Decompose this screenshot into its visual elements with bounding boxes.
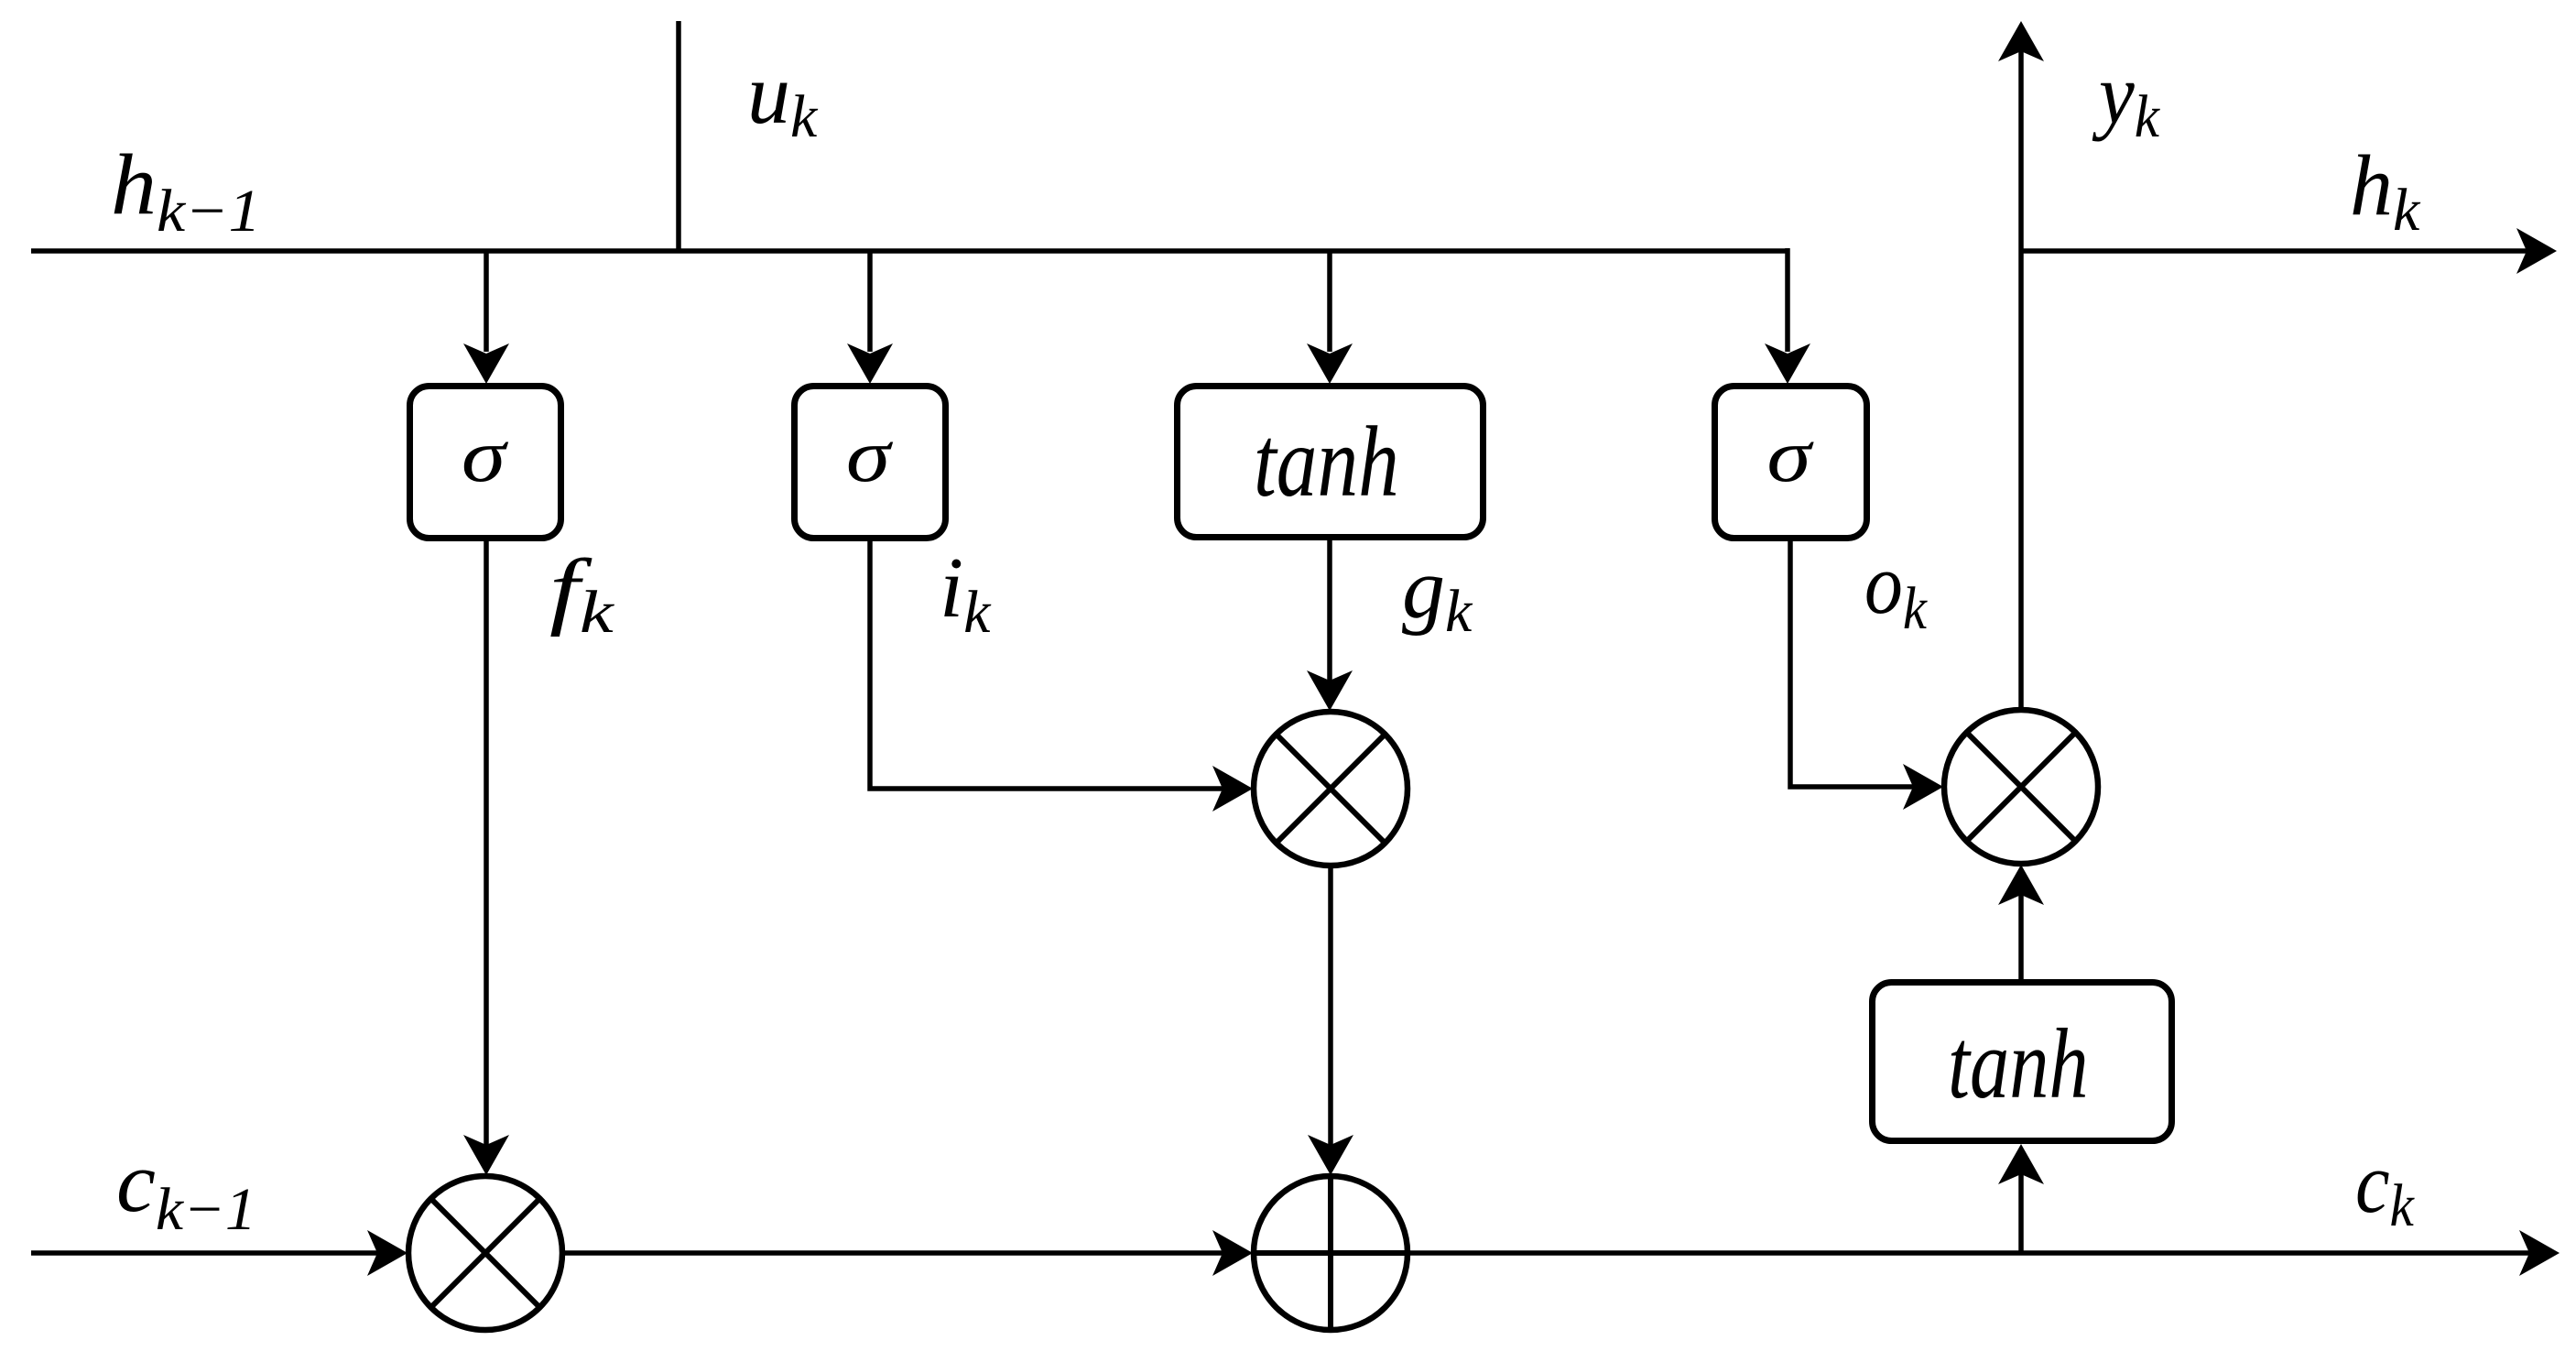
svg-text:ok: ok <box>1864 538 1928 642</box>
svg-text:yk: yk <box>2092 46 2160 149</box>
label h_k <box>2350 138 2421 244</box>
svg-text:gk: gk <box>1402 541 1473 645</box>
box tanh2 (cell output squash) <box>1873 983 2172 1141</box>
box sigma2 (input gate) <box>795 387 946 539</box>
wire mult2 to adder <box>1308 866 1353 1175</box>
svg-text:σ: σ <box>846 414 894 497</box>
wire c-line left (c_{k-1} input) <box>31 1230 408 1276</box>
label i_k <box>940 540 992 646</box>
label c_k <box>2355 1136 2415 1239</box>
label u_k <box>747 47 819 150</box>
wire corner drop arrow to sigma3 <box>1765 248 1810 384</box>
svg-text:uk: uk <box>747 47 819 150</box>
wire c to tanh2 <box>1998 1144 2044 1253</box>
svg-text:ik: ik <box>940 540 992 646</box>
svg-text:hk−1: hk−1 <box>111 137 261 245</box>
label o_k <box>1864 538 1928 642</box>
wire c-line right (c_k output) <box>1408 1230 2560 1276</box>
svg-text:ck−1: ck−1 <box>116 1134 256 1243</box>
svg-text:σ: σ <box>462 414 509 497</box>
wire i_k from sigma2 to mult2 <box>870 541 1253 812</box>
label h_{k-1} <box>111 137 261 245</box>
box tanh1 (candidate) <box>1178 387 1484 538</box>
wire h_k output <box>2021 228 2557 274</box>
multiplier mult1 (f_k x c_{k-1}) <box>408 1176 562 1330</box>
box sigma1 (forget gate) <box>410 387 561 539</box>
adder (f*c + i*g) <box>1254 1176 1408 1330</box>
wire g_k from tanh1 to mult2 <box>1307 539 1353 711</box>
label g_k <box>1402 541 1473 645</box>
wire mult3 up to y_k output <box>1998 21 2044 710</box>
svg-text:tanh: tanh <box>1948 1010 2089 1120</box>
label sigma1 <box>462 414 509 497</box>
svg-text:ck: ck <box>2355 1136 2415 1239</box>
wire f_k from sigma1 to mult1 <box>463 541 509 1175</box>
label y_k <box>2092 46 2160 149</box>
wire tanh2 to mult3 <box>1998 865 2044 982</box>
multiplier mult3 (o_k x tanh(c_k)) <box>1944 710 2098 864</box>
wire h-line (h_{k-1} input bus) <box>31 248 1788 254</box>
label tanh2 <box>1948 1010 2089 1120</box>
wire c-line mid (mult1 to adder) <box>562 1230 1253 1276</box>
wire branch arrow to sigma2 <box>847 251 893 384</box>
wire o_k from sigma3 to mult3 <box>1790 541 1943 810</box>
multiplier mult2 (i_k x g_k) <box>1254 712 1408 866</box>
label c_{k-1} <box>116 1134 256 1243</box>
wire branch arrow to tanh1 <box>1307 251 1353 384</box>
box sigma3 (output gate) <box>1715 387 1867 539</box>
label sigma2 <box>846 414 894 497</box>
wire u_k input drop <box>676 21 681 251</box>
wire branch arrow to sigma1 <box>463 251 509 384</box>
label f_k <box>549 542 615 646</box>
svg-text:fk: fk <box>549 542 615 646</box>
label sigma3 <box>1766 414 1814 497</box>
svg-text:tanh: tanh <box>1254 406 1399 518</box>
label tanh1 <box>1254 406 1399 518</box>
svg-text:hk: hk <box>2350 138 2421 244</box>
svg-text:σ: σ <box>1766 414 1814 497</box>
